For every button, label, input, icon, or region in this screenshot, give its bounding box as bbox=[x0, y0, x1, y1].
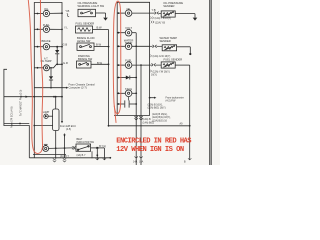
svg-text:B: B bbox=[184, 161, 186, 164]
internal rail x140.7 bbox=[140, 65, 142, 165]
right cluster box bbox=[114, 2, 150, 115]
svg-text:14A: 14A bbox=[133, 161, 138, 164]
gauge FUEL (right) bbox=[117, 62, 149, 69]
wire: far-left lower (y 123.5) bbox=[4, 123, 29, 125]
fuel sender resistor box (row2) bbox=[76, 26, 93, 33]
svg-text:G.R: G.R bbox=[63, 61, 68, 65]
left cluster bottom edge bbox=[29, 157, 110, 159]
junction arrow on wire bbox=[26, 96, 29, 98]
svg-text:16(Y): 16(Y) bbox=[151, 74, 157, 77]
svg-text:VOLT: VOLT bbox=[125, 26, 132, 30]
svg-text:INDICATOR SW: INDICATOR SW bbox=[77, 141, 95, 144]
diode D3 (right cluster) bbox=[117, 76, 137, 80]
gauge VOLT (right) bbox=[117, 29, 136, 36]
svg-text:12V WHEN IGN IS ON: 12V WHEN IGN IS ON bbox=[116, 146, 184, 154]
svg-text:BRAKE SW: BRAKE SW bbox=[78, 57, 93, 61]
svg-text:(12A) B(G) 16: (12A) B(G) 16 bbox=[152, 119, 168, 122]
svg-text:SENDER: SENDER bbox=[160, 39, 171, 43]
svg-text:OIL: OIL bbox=[126, 7, 131, 11]
EPI ECU wire down x64.5 bbox=[64, 134, 66, 158]
inline connector bbox=[72, 147, 76, 150]
left cluster box bbox=[34, 3, 62, 158]
svg-text:To "CHARGE" Plug (2-3): To "CHARGE" Plug (2-3) bbox=[20, 90, 23, 116]
diode D1 (between brake and parking rows) bbox=[55, 46, 59, 66]
svg-text:Y.L: Y.L bbox=[64, 25, 68, 29]
svg-text:(4-2) P.W: (4-2) P.W bbox=[166, 100, 177, 103]
svg-text:(12A) B(G) 16(Y): (12A) B(G) 16(Y) bbox=[148, 107, 166, 110]
svg-text:TACH: TACH bbox=[125, 87, 132, 91]
svg-text:14A: 14A bbox=[139, 161, 144, 164]
wire to ground bbox=[96, 12, 106, 14]
red tail bottom bbox=[114, 106, 116, 123]
svg-text:BRAKE: BRAKE bbox=[41, 39, 50, 43]
svg-text:B.W: B.W bbox=[96, 42, 102, 46]
sender row1: oil pressure sender bbox=[150, 12, 162, 15]
svg-text:(4-5): (4-5) bbox=[66, 128, 71, 131]
svg-text:B.W: B.W bbox=[97, 25, 103, 29]
red encirclement oval (right cluster) bbox=[113, 1, 121, 113]
svg-text:WARNING LIGHT SW: WARNING LIGHT SW bbox=[78, 4, 105, 8]
svg-text:(4A) B.Y: (4A) B.Y bbox=[77, 154, 86, 157]
diode D2 (below oil temp row) bbox=[49, 67, 53, 88]
oil pressure warning light switch (row1) bbox=[78, 9, 96, 16]
svg-text:LAMP: LAMP bbox=[43, 111, 50, 114]
bus wire y125.8 bbox=[109, 125, 190, 127]
gauge BRAKE (left) bbox=[34, 44, 63, 50]
wire: from chassis computer (y 87.7) bbox=[34, 87, 66, 89]
svg-text:From EPI ECU (4-5): From EPI ECU (4-5) bbox=[11, 106, 14, 128]
capacitor C1 bbox=[117, 97, 137, 108]
junction dots y96.7 bbox=[53, 96, 55, 98]
svg-text:G.B: G.B bbox=[63, 42, 68, 46]
gauge OIL (right) bbox=[117, 10, 149, 17]
svg-text:FUEL: FUEL bbox=[125, 59, 132, 63]
belt sw output bbox=[91, 147, 105, 149]
svg-text:OIL: OIL bbox=[44, 7, 49, 11]
svg-text:FUEL: FUEL bbox=[43, 23, 50, 27]
svg-text:Y.B: Y.B bbox=[152, 8, 156, 12]
svg-text:B.Y(L): B.Y(L) bbox=[99, 145, 106, 148]
sender row2: water temp sender bbox=[150, 45, 163, 48]
gauge WATER TEMP (right) bbox=[117, 43, 149, 50]
sender row3: fuel sender bbox=[150, 63, 162, 66]
junction dot bbox=[19, 123, 21, 125]
rheostat (illumination dimmer) bbox=[53, 109, 59, 131]
B.W rail x111.5 bbox=[108, 30, 110, 126]
gauge FUEL (left) bbox=[34, 26, 63, 32]
ground G1 bbox=[103, 18, 108, 21]
svg-text:ENCIRCLED IN RED HAS: ENCIRCLED IN RED HAS bbox=[116, 138, 192, 146]
wire: far-left to cluster (y 96.7) bbox=[4, 96, 62, 98]
svg-text:(12A) Y.B 16(Y): (12A) Y.B 16(Y) bbox=[155, 17, 172, 20]
svg-text:FUEL SENDER: FUEL SENDER bbox=[76, 22, 95, 26]
wire y154.6 bbox=[33, 154, 66, 156]
belt indicator switch box bbox=[76, 144, 91, 151]
svg-text:FUEL SENDER: FUEL SENDER bbox=[164, 57, 183, 61]
svg-text:(12A) Y.B: (12A) Y.B bbox=[155, 21, 165, 24]
svg-text:B.W: B.W bbox=[97, 61, 103, 65]
svg-text:OIL TEMP: OIL TEMP bbox=[40, 60, 51, 63]
gauge OIL TEMP (left) bbox=[34, 63, 63, 70]
far-left module box bbox=[4, 69, 29, 157]
internal rail x135.5 bbox=[135, 33, 137, 165]
red trace B (left) bbox=[40, 0, 42, 145]
parking brake switch (row4) bbox=[77, 61, 92, 68]
wire down to EPI (x 61) bbox=[61, 97, 63, 122]
svg-text:LEVEL SW: LEVEL SW bbox=[77, 39, 91, 43]
wire belt row y149.9 bbox=[49, 147, 72, 150]
wire y125.5 to rheostat bbox=[34, 125, 52, 127]
red trace A (left) bbox=[28, 0, 42, 153]
svg-text:SENDER: SENDER bbox=[163, 4, 174, 8]
svg-text:(4A) B.Y: (4A) B.Y bbox=[60, 155, 69, 158]
svg-text:Y.B: Y.B bbox=[65, 9, 69, 13]
svg-text:A9: A9 bbox=[180, 123, 184, 126]
svg-text:(14A) B(G): (14A) B(G) bbox=[143, 121, 155, 124]
lamp L1 bbox=[44, 114, 53, 118]
lamp L2 (encircled) bbox=[43, 144, 49, 151]
splice mark row1 bbox=[67, 14, 69, 17]
svg-text:TEMP: TEMP bbox=[125, 41, 133, 45]
gauge TACH (right) bbox=[117, 90, 137, 97]
ground G2 bbox=[193, 18, 198, 21]
svg-text:Computer (2-7): Computer (2-7) bbox=[69, 85, 87, 89]
gauge OIL (left) bbox=[34, 10, 63, 16]
brake fluid level switch (row3) bbox=[77, 43, 94, 50]
page border right bbox=[208, 0, 210, 165]
tach output stub bbox=[149, 97, 151, 99]
red stamp text bbox=[116, 138, 192, 154]
below-box connector pins bbox=[135, 116, 138, 120]
